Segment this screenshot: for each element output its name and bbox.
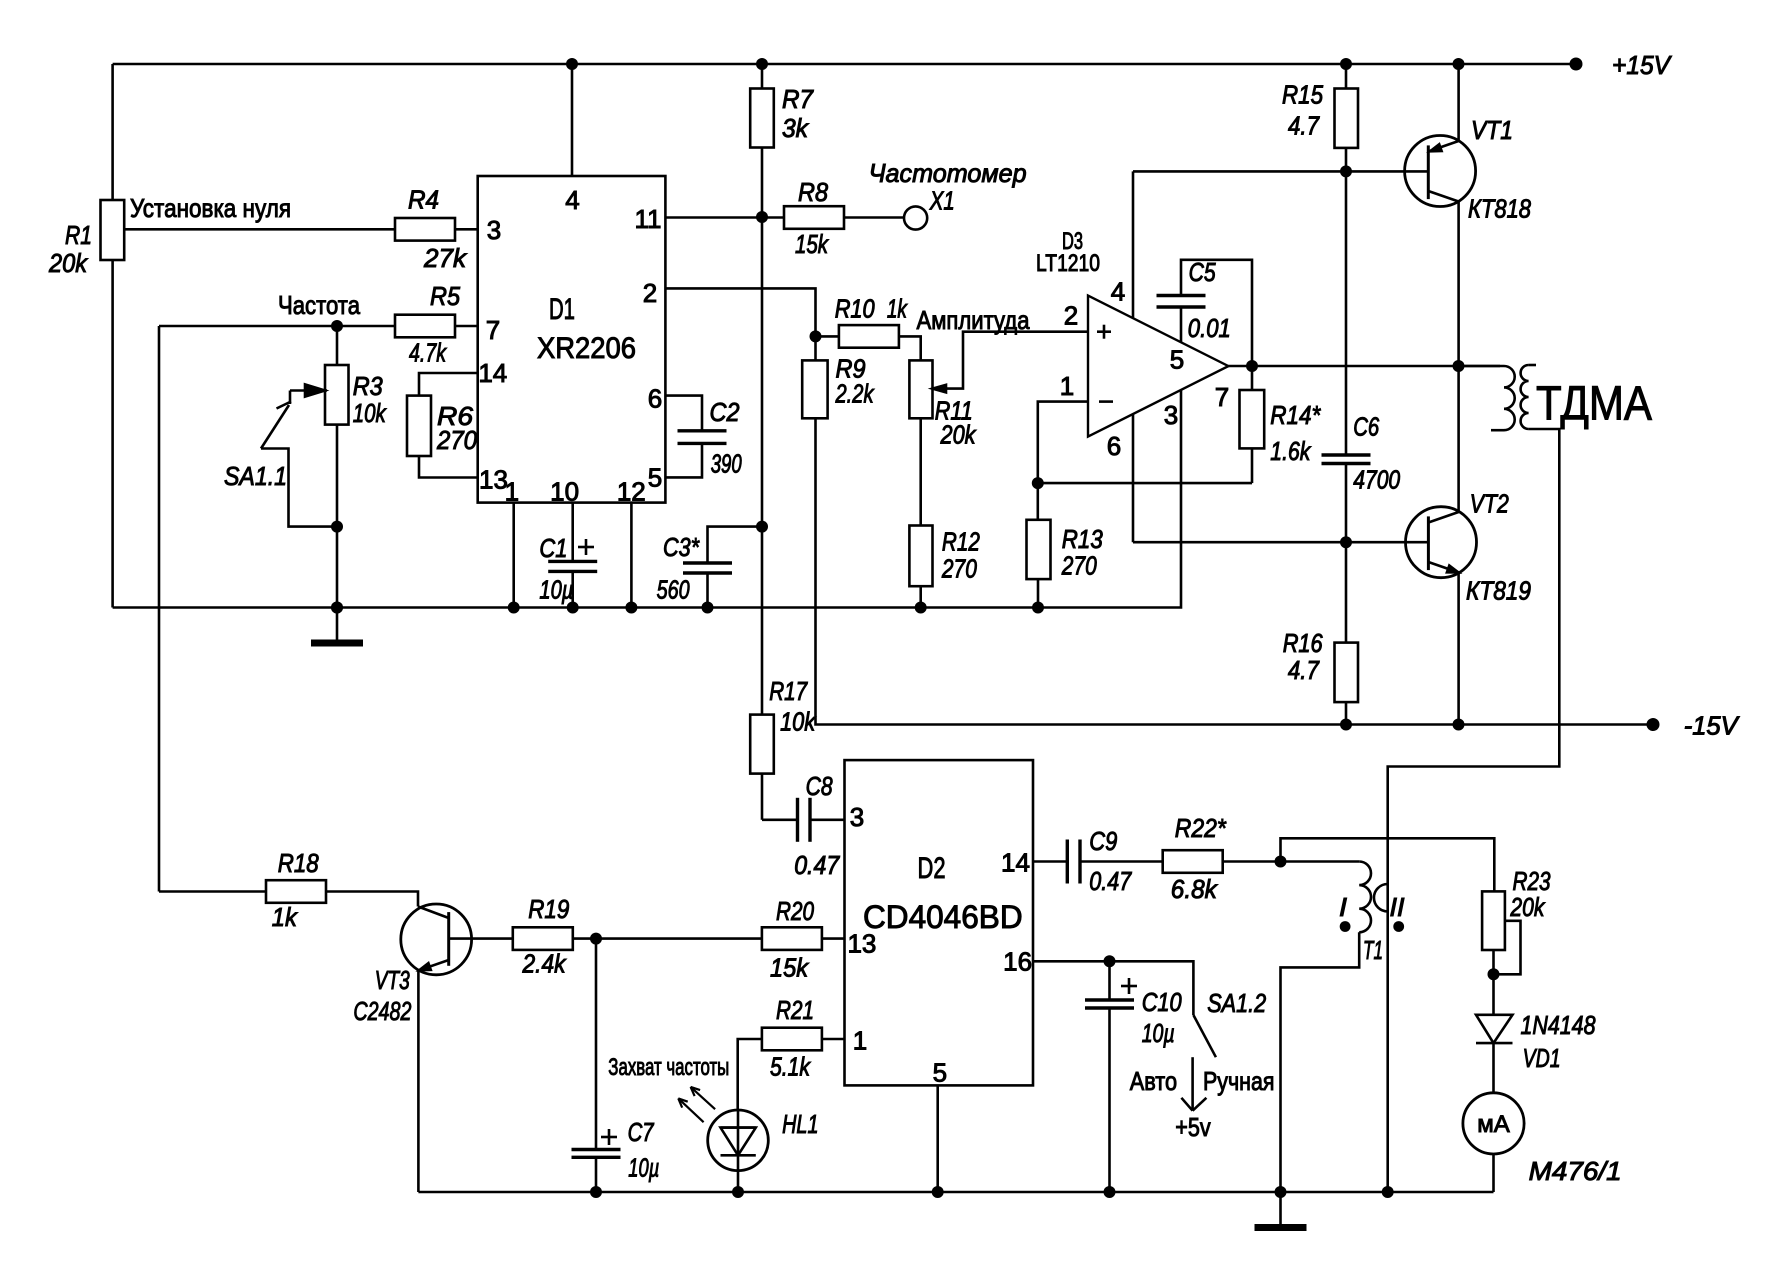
svg-text:0.47: 0.47	[794, 850, 840, 880]
svg-text:3k: 3k	[782, 113, 810, 143]
svg-text:4.7: 4.7	[1288, 111, 1320, 141]
svg-text:4: 4	[565, 185, 579, 215]
svg-text:M476/1: M476/1	[1529, 1156, 1622, 1186]
svg-text:мА: мА	[1477, 1111, 1510, 1138]
svg-text:1k: 1k	[887, 294, 908, 324]
svg-text:+15V: +15V	[1612, 50, 1673, 80]
svg-text:0.01: 0.01	[1188, 313, 1231, 343]
svg-text:Ручная: Ручная	[1203, 1066, 1275, 1096]
svg-text:20k: 20k	[1510, 892, 1546, 922]
svg-text:II: II	[1390, 892, 1405, 922]
svg-text:6: 6	[1107, 431, 1121, 461]
svg-text:C9: C9	[1089, 826, 1117, 856]
svg-text:R8: R8	[798, 177, 828, 207]
svg-text:SA1.2: SA1.2	[1207, 988, 1266, 1018]
svg-text:Амплитуда: Амплитуда	[917, 305, 1030, 335]
svg-text:10µ: 10µ	[628, 1153, 659, 1183]
svg-text:3: 3	[487, 215, 501, 245]
svg-text:13: 13	[847, 929, 876, 959]
svg-text:20k: 20k	[940, 420, 978, 450]
svg-text:C10: C10	[1142, 987, 1182, 1017]
svg-text:R20: R20	[776, 896, 814, 926]
svg-text:10k: 10k	[353, 398, 388, 428]
svg-text:R22*: R22*	[1175, 813, 1227, 843]
svg-text:1N4148: 1N4148	[1521, 1010, 1596, 1040]
svg-text:R21: R21	[776, 995, 814, 1025]
svg-text:6.8k: 6.8k	[1171, 874, 1219, 904]
svg-text:2.2k: 2.2k	[835, 379, 875, 409]
svg-text:R1: R1	[65, 220, 92, 250]
svg-text:C1: C1	[539, 533, 567, 563]
svg-text:R17: R17	[769, 676, 808, 706]
svg-text:10: 10	[550, 477, 579, 507]
svg-text:R16: R16	[1283, 628, 1323, 658]
svg-text:C7: C7	[628, 1117, 655, 1147]
svg-text:R4: R4	[408, 185, 439, 215]
svg-text:R15: R15	[1282, 80, 1323, 110]
svg-text:0.47: 0.47	[1089, 866, 1132, 896]
svg-text:C2: C2	[710, 397, 740, 427]
svg-text:16: 16	[1003, 947, 1032, 977]
svg-text:Частота: Частота	[278, 290, 360, 320]
svg-text:14: 14	[478, 358, 507, 388]
svg-text:CD4046BD: CD4046BD	[863, 899, 1023, 935]
svg-text:10k: 10k	[780, 707, 817, 737]
svg-text:2: 2	[1064, 301, 1078, 331]
svg-text:-15V: -15V	[1684, 711, 1741, 741]
svg-text:1.6k: 1.6k	[1270, 436, 1312, 466]
svg-text:R13: R13	[1062, 524, 1103, 554]
svg-text:3: 3	[1164, 400, 1178, 430]
svg-text:VD1: VD1	[1523, 1043, 1561, 1073]
svg-text:5: 5	[648, 463, 662, 493]
svg-text:20k: 20k	[48, 248, 89, 278]
svg-text:4700: 4700	[1353, 465, 1400, 495]
svg-text:5: 5	[933, 1058, 947, 1088]
svg-text:R3: R3	[353, 371, 383, 401]
svg-text:C2482: C2482	[353, 996, 411, 1026]
svg-text:VT2: VT2	[1470, 489, 1509, 519]
svg-text:14: 14	[1001, 848, 1030, 878]
svg-text:270: 270	[436, 425, 477, 455]
svg-text:ТДМА: ТДМА	[1536, 378, 1652, 431]
svg-text:C3*: C3*	[663, 532, 700, 562]
svg-text:Захват частоты: Захват частоты	[608, 1054, 729, 1081]
svg-text:4.7: 4.7	[1288, 655, 1320, 685]
svg-text:4: 4	[1111, 277, 1125, 307]
svg-text:X1: X1	[929, 186, 955, 216]
svg-text:12: 12	[617, 477, 646, 507]
svg-text:R19: R19	[528, 894, 569, 924]
svg-text:1: 1	[853, 1026, 867, 1056]
svg-text:C8: C8	[806, 771, 833, 801]
svg-text:4.7k: 4.7k	[409, 338, 447, 368]
svg-text:HL1: HL1	[782, 1109, 818, 1139]
svg-text:D2: D2	[918, 852, 946, 885]
svg-text:3: 3	[850, 802, 864, 832]
svg-text:LT1210: LT1210	[1036, 250, 1100, 277]
svg-text:R14*: R14*	[1270, 400, 1321, 430]
svg-text:27k: 27k	[423, 243, 468, 273]
svg-text:7: 7	[486, 315, 500, 345]
svg-text:10µ: 10µ	[539, 575, 573, 605]
svg-text:XR2206: XR2206	[537, 332, 636, 365]
svg-text:390: 390	[711, 449, 742, 479]
svg-text:7: 7	[1215, 382, 1229, 412]
svg-text:2.4k: 2.4k	[522, 949, 568, 979]
svg-text:VT3: VT3	[375, 965, 410, 995]
svg-text:VT1: VT1	[1471, 115, 1513, 145]
svg-text:Авто: Авто	[1130, 1066, 1177, 1096]
svg-text:Частотомер: Частотомер	[869, 158, 1027, 188]
svg-text:R18: R18	[278, 848, 319, 878]
svg-text:R10: R10	[835, 294, 875, 324]
svg-text:560: 560	[657, 575, 690, 605]
svg-text:11: 11	[635, 204, 662, 234]
svg-text:R5: R5	[430, 281, 460, 311]
svg-text:R7: R7	[782, 84, 814, 114]
svg-text:5: 5	[1170, 345, 1184, 375]
svg-text:C5: C5	[1189, 257, 1216, 287]
svg-text:15k: 15k	[795, 229, 830, 259]
svg-text:C6: C6	[1353, 412, 1379, 442]
svg-text:2: 2	[643, 278, 657, 308]
svg-text:КТ819: КТ819	[1466, 576, 1531, 606]
svg-text:1k: 1k	[272, 902, 299, 932]
svg-text:270: 270	[941, 554, 977, 584]
svg-text:I: I	[1339, 892, 1347, 922]
svg-text:270: 270	[1061, 551, 1097, 581]
svg-text:6: 6	[648, 384, 662, 414]
svg-text:1: 1	[1060, 371, 1074, 401]
svg-text:15k: 15k	[770, 953, 810, 983]
svg-text:1: 1	[505, 477, 519, 507]
svg-text:Установка нуля: Установка нуля	[130, 193, 291, 223]
svg-text:D1: D1	[549, 293, 575, 326]
svg-text:КТ818: КТ818	[1468, 194, 1531, 224]
svg-text:+5v: +5v	[1175, 1112, 1210, 1142]
svg-text:10µ: 10µ	[1142, 1018, 1175, 1048]
svg-text:SA1.1: SA1.1	[224, 461, 287, 491]
svg-text:5.1k: 5.1k	[770, 1052, 812, 1082]
svg-text:R12: R12	[942, 527, 980, 557]
svg-text:T1: T1	[1363, 935, 1383, 965]
